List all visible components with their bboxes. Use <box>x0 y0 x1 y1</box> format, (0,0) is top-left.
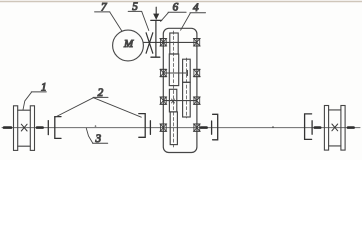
scan speck near label 3 <box>95 125 97 127</box>
bearing B2 input right <box>193 39 200 46</box>
gearbox housing U4 <box>163 28 197 152</box>
wheel W2 right flange <box>341 106 345 151</box>
svg-text:M: M <box>123 38 134 50</box>
coupling M2 half-flange <box>149 121 151 135</box>
scan speck on right shaft <box>272 126 274 128</box>
main transmission centerline (output shaft axis) <box>2 127 360 129</box>
gear axis dashed line column A <box>172 31 174 147</box>
label 5 leader <box>142 12 149 31</box>
label 2 leader left branch <box>55 98 94 118</box>
bearing B8 output right <box>193 124 200 131</box>
coupling M2 bracket <box>139 114 145 138</box>
shaft end stub (left edge) <box>4 126 11 129</box>
coupling M3 half-flange <box>211 121 213 134</box>
brake T6 release arrow <box>154 7 159 19</box>
label 6 leader <box>161 13 169 22</box>
coupling M4 half-flange <box>311 121 313 134</box>
coupling M4 bracket <box>305 114 312 139</box>
label 5 <box>128 1 142 13</box>
brake T6 post <box>155 20 157 56</box>
gear Z4 (shaft B) <box>183 82 191 117</box>
label 4 <box>190 2 206 14</box>
coupling M1 half-flange <box>47 121 49 135</box>
gear Z2 (shaft A) <box>169 54 178 86</box>
label 2 <box>93 87 108 99</box>
shaft A end tick <box>186 70 188 75</box>
pinion Z3 (shaft A) <box>183 59 191 82</box>
label 6 <box>168 1 186 13</box>
coupling M1 bracket <box>55 117 61 139</box>
bearing B1 input left <box>160 39 167 46</box>
gear axis dashed line column B <box>185 58 187 118</box>
faint scan border top <box>0 1 362 3</box>
label 2 leader right branch <box>93 98 141 118</box>
label 1 <box>31 81 46 93</box>
pinion Z1 (input shaft) <box>170 33 178 54</box>
pinion Z5 hub cross <box>172 99 175 103</box>
shaft stub coupling to wheel2 <box>315 126 320 129</box>
shaft stub gearbox to coupling right <box>201 126 207 129</box>
wheel W1 left flange <box>14 106 18 151</box>
brake T6 bar <box>151 19 162 21</box>
wheel W1 hub cross <box>21 124 27 131</box>
label 3 <box>93 133 108 145</box>
shaft end stub (right edge) <box>348 126 354 129</box>
label 4 leader <box>181 13 191 30</box>
wheel W2 hub cross <box>332 124 338 131</box>
intermediate shaft A <box>163 72 187 74</box>
coupling M3 bracket <box>213 114 218 140</box>
svg-text:4: 4 <box>193 2 199 14</box>
wheel W1 right flange <box>30 106 34 151</box>
motor M circle U7 <box>113 30 144 61</box>
brake T6 foot <box>151 56 160 58</box>
label 7 leader <box>110 12 122 31</box>
bearing B3 shaft A left <box>160 69 167 76</box>
gear Z6 (output shaft) <box>170 112 177 145</box>
pinion Z5 (shaft B) <box>169 89 176 112</box>
intermediate shaft B <box>163 100 197 102</box>
bearing B7 output left <box>160 124 167 131</box>
shaft stub wheel1 to coupling <box>37 126 43 129</box>
label 7 <box>95 1 110 13</box>
motor shaft / gearbox input shaft <box>143 41 196 43</box>
wheel W2 left flange <box>324 106 328 151</box>
coupling C5 cross symbol <box>146 33 153 53</box>
bearing B6 shaft B right <box>193 97 200 104</box>
wheel W1 rim lines <box>18 110 31 146</box>
label 3 leader <box>86 128 93 143</box>
bearing B4 shaft A right <box>193 69 200 76</box>
bearing B5 shaft B left <box>160 97 167 104</box>
wheel W2 rim lines <box>329 110 341 146</box>
svg-text:6: 6 <box>173 1 179 13</box>
label 1 leader <box>23 92 32 110</box>
